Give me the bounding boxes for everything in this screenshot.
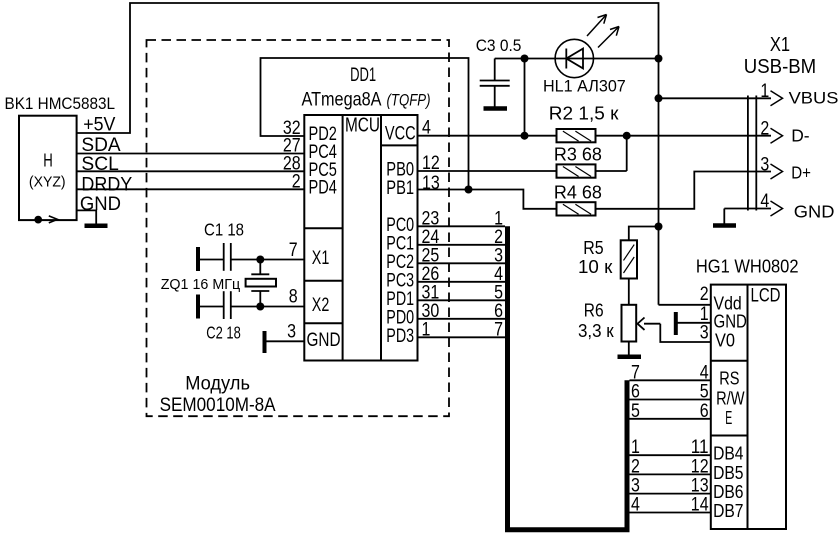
svg-text:R/W: R/W xyxy=(716,389,745,409)
svg-text:Vdd: Vdd xyxy=(714,293,742,313)
svg-text:4: 4 xyxy=(631,495,640,516)
arrow D+ xyxy=(771,164,783,179)
wire bus MCU side pin25 xyxy=(418,262,506,264)
capacitor C1 wires xyxy=(199,259,224,261)
node dot PB1 xyxy=(465,186,473,194)
capacitor C1 terminal bar xyxy=(196,247,200,271)
node dot at C3 wire xyxy=(521,55,529,63)
wire LCD DB7 xyxy=(630,512,711,514)
resistor R3 wires xyxy=(418,170,557,172)
svg-text:2: 2 xyxy=(292,171,301,192)
LCD divider V0/RS xyxy=(711,360,748,362)
connector X1 double lines xyxy=(747,96,749,211)
svg-text:6: 6 xyxy=(700,401,709,422)
wire R6 to ground xyxy=(628,342,630,355)
terminal bar GND pin3 xyxy=(263,331,267,353)
MCU left divider X2/GND xyxy=(304,322,342,324)
capacitor C2 wires xyxy=(199,306,224,308)
bus thick line xyxy=(508,226,628,530)
MCU inner column line right xyxy=(380,115,382,361)
terminal bar LCD GND pin1 xyxy=(674,312,678,335)
svg-text:ZQ1 16 МГц: ZQ1 16 МГц xyxy=(161,277,241,293)
wire VCC pin4 to R2 and D- xyxy=(418,135,557,137)
svg-text:2: 2 xyxy=(760,118,769,139)
LED HL1 triangle xyxy=(566,49,583,69)
op-amp U1 MCU block outer box xyxy=(304,115,417,361)
potentiometer R6 body xyxy=(622,305,637,342)
svg-text:BK1 HMC5883L: BK1 HMC5883L xyxy=(5,94,116,113)
svg-text:D+: D+ xyxy=(791,162,811,182)
svg-text:11: 11 xyxy=(691,437,709,458)
svg-text:VCC: VCC xyxy=(385,123,416,145)
wire LCD DB4 xyxy=(630,454,711,456)
wire USB GND xyxy=(724,208,771,210)
svg-text:X1: X1 xyxy=(770,33,790,56)
svg-text:GND: GND xyxy=(794,201,835,221)
module dashed box SEM0010M-8A xyxy=(147,40,450,416)
node dot X2 xyxy=(256,303,264,311)
svg-text:3: 3 xyxy=(631,476,640,497)
svg-text:LCD: LCD xyxy=(751,285,781,307)
crystal ZQ1 xyxy=(259,260,261,275)
svg-text:GND: GND xyxy=(714,311,747,331)
wire bus MCU side pin24 xyxy=(418,244,506,246)
wire LCD DB5 xyxy=(630,473,711,475)
capacitor C3 xyxy=(494,59,496,81)
svg-text:C2 18: C2 18 xyxy=(206,323,241,343)
wire Vdd pin2 xyxy=(659,304,711,306)
svg-text:D-: D- xyxy=(791,126,810,146)
svg-text:5: 5 xyxy=(631,401,640,422)
svg-text:VBUS: VBUS xyxy=(789,89,839,108)
wire bus MCU side pin1 xyxy=(418,336,506,338)
svg-text:X2: X2 xyxy=(312,294,330,316)
svg-text:3: 3 xyxy=(760,154,769,175)
MCU left divider X1/X2 xyxy=(304,280,342,282)
wire VBUS xyxy=(659,97,772,99)
wire R4 to D+ xyxy=(596,172,772,209)
wire +5V top rail xyxy=(77,3,659,133)
wire LCD RS xyxy=(630,379,711,381)
svg-text:DB6: DB6 xyxy=(713,482,743,502)
svg-text:R5: R5 xyxy=(583,237,603,258)
node dot R5 tap xyxy=(655,223,663,231)
power rail right vertical xyxy=(658,59,660,305)
svg-text:3: 3 xyxy=(287,322,296,343)
svg-text:2: 2 xyxy=(631,456,640,477)
node dot D- branch xyxy=(623,132,631,140)
node dot LED/rail xyxy=(655,55,663,63)
wire LCD GND pin1 xyxy=(678,322,711,324)
svg-text:5: 5 xyxy=(700,382,709,403)
svg-text:R4 68: R4 68 xyxy=(554,181,602,202)
svg-text:7: 7 xyxy=(494,319,503,340)
node dot sensor bottom xyxy=(34,216,42,224)
sensor BK1 HMC5883L box xyxy=(19,116,77,220)
wire sensor GND xyxy=(77,210,96,224)
resistor R4 body xyxy=(557,202,596,215)
wire PB1/PD2 to R4 xyxy=(418,190,557,209)
wire R5 top xyxy=(629,227,659,241)
wire SDA xyxy=(77,153,304,155)
arrow on sensor bottom edge xyxy=(49,216,58,223)
svg-text:(XYZ): (XYZ) xyxy=(29,174,66,190)
svg-text:ATmega8A: ATmega8A xyxy=(302,89,382,111)
MCU left divider above X1 xyxy=(304,227,342,229)
svg-text:Модуль: Модуль xyxy=(185,373,250,394)
node dot VCC branch xyxy=(521,132,529,140)
svg-text:2: 2 xyxy=(700,284,709,305)
wire VCC up xyxy=(524,59,526,136)
LED HL1 arrow 1 xyxy=(587,15,607,37)
svg-text:R3 68: R3 68 xyxy=(554,143,602,164)
wire DRDY xyxy=(77,188,304,190)
LED HL1 cathode bar xyxy=(565,49,567,69)
wire bus MCU side pin31 xyxy=(418,299,506,301)
svg-text:4: 4 xyxy=(700,362,709,383)
capacitor C2 plates xyxy=(223,291,225,319)
wire C3/LED rail xyxy=(495,58,659,60)
svg-text:PD4: PD4 xyxy=(309,177,338,199)
wire bus MCU side pin23 xyxy=(418,225,506,227)
svg-text:DD1: DD1 xyxy=(350,65,376,86)
svg-text:10 к: 10 к xyxy=(578,256,613,277)
R6 wiper arrow xyxy=(644,323,660,325)
svg-text:USB-BM: USB-BM xyxy=(744,55,816,78)
wire R5 to R6 xyxy=(628,279,630,305)
LCD HG1 box xyxy=(711,285,786,529)
svg-text:7: 7 xyxy=(289,240,298,261)
svg-text:DB4: DB4 xyxy=(713,444,743,464)
svg-text:HL1 АЛ307: HL1 АЛ307 xyxy=(543,77,626,95)
wire LCD DB6 xyxy=(630,493,711,495)
wire SCL xyxy=(77,170,304,172)
MCU right divider below VCC xyxy=(381,144,418,146)
wire LCD E xyxy=(630,418,711,420)
svg-text:R6: R6 xyxy=(584,299,604,320)
capacitor C1 plates xyxy=(223,243,225,271)
capacitor C2 terminal bar xyxy=(196,295,200,319)
svg-text:C3 0.5: C3 0.5 xyxy=(476,37,522,55)
svg-text:PB1: PB1 xyxy=(386,177,414,199)
node dot X1 xyxy=(256,256,264,264)
LCD divider E/DB4 xyxy=(711,435,748,437)
svg-text:C1 18: C1 18 xyxy=(204,219,244,239)
resistor R5 body xyxy=(621,240,637,278)
svg-text:E: E xyxy=(725,408,732,428)
svg-text:4: 4 xyxy=(760,191,769,212)
svg-text:1: 1 xyxy=(760,81,769,102)
resistor R2 body xyxy=(557,129,596,142)
wire GND pin3 xyxy=(266,340,304,342)
svg-text:V0: V0 xyxy=(715,330,735,350)
svg-text:3: 3 xyxy=(700,323,709,344)
svg-text:+5V: +5V xyxy=(83,113,115,135)
svg-text:HG1 WH0802: HG1 WH0802 xyxy=(696,256,799,276)
arrow GND xyxy=(771,201,783,216)
svg-text:1: 1 xyxy=(631,437,640,458)
svg-text:13: 13 xyxy=(422,173,440,194)
resistor R3 body xyxy=(557,164,596,177)
node dot VBUS xyxy=(655,94,663,102)
svg-text:14: 14 xyxy=(691,495,709,516)
wire bus MCU side pin26 xyxy=(418,281,506,283)
svg-text:MCU: MCU xyxy=(345,115,380,137)
arrow VBUS xyxy=(771,91,783,106)
svg-text:12: 12 xyxy=(691,456,709,477)
wire DD1 outline PD2 to top xyxy=(261,58,469,190)
svg-text:R2 1,5 к: R2 1,5 к xyxy=(549,103,620,124)
ground bar C3 xyxy=(484,106,508,111)
wire LCD R/W xyxy=(630,399,711,401)
svg-text:RS: RS xyxy=(719,368,739,388)
svg-text:GND: GND xyxy=(307,329,341,351)
LED HL1 circle xyxy=(555,39,593,77)
svg-text:8: 8 xyxy=(289,287,298,308)
svg-text:13: 13 xyxy=(691,476,709,497)
ground bar R6 xyxy=(618,355,642,360)
MCU inner column line left xyxy=(342,115,344,361)
LED HL1 arrow 2 xyxy=(598,27,619,48)
wire bus MCU side pin30 xyxy=(418,318,506,320)
svg-text:GND: GND xyxy=(80,193,121,215)
ground bar sensor xyxy=(85,224,108,229)
ground symbol USB xyxy=(723,209,725,224)
arrow D- xyxy=(771,128,783,143)
svg-text:7: 7 xyxy=(631,362,640,383)
svg-text:(TQFP): (TQFP) xyxy=(387,92,431,110)
LCD inner column line xyxy=(747,285,749,529)
svg-text:X1: X1 xyxy=(312,247,330,269)
svg-text:SEM0010M-8A: SEM0010M-8A xyxy=(160,395,276,416)
svg-text:6: 6 xyxy=(631,382,640,403)
wire R6 wiper to V0 xyxy=(660,324,711,342)
svg-text:PD3: PD3 xyxy=(386,325,414,347)
svg-text:DB5: DB5 xyxy=(713,463,743,483)
svg-text:3,3 к: 3,3 к xyxy=(578,321,614,341)
svg-text:H: H xyxy=(43,151,53,171)
svg-text:DB7: DB7 xyxy=(713,501,743,521)
